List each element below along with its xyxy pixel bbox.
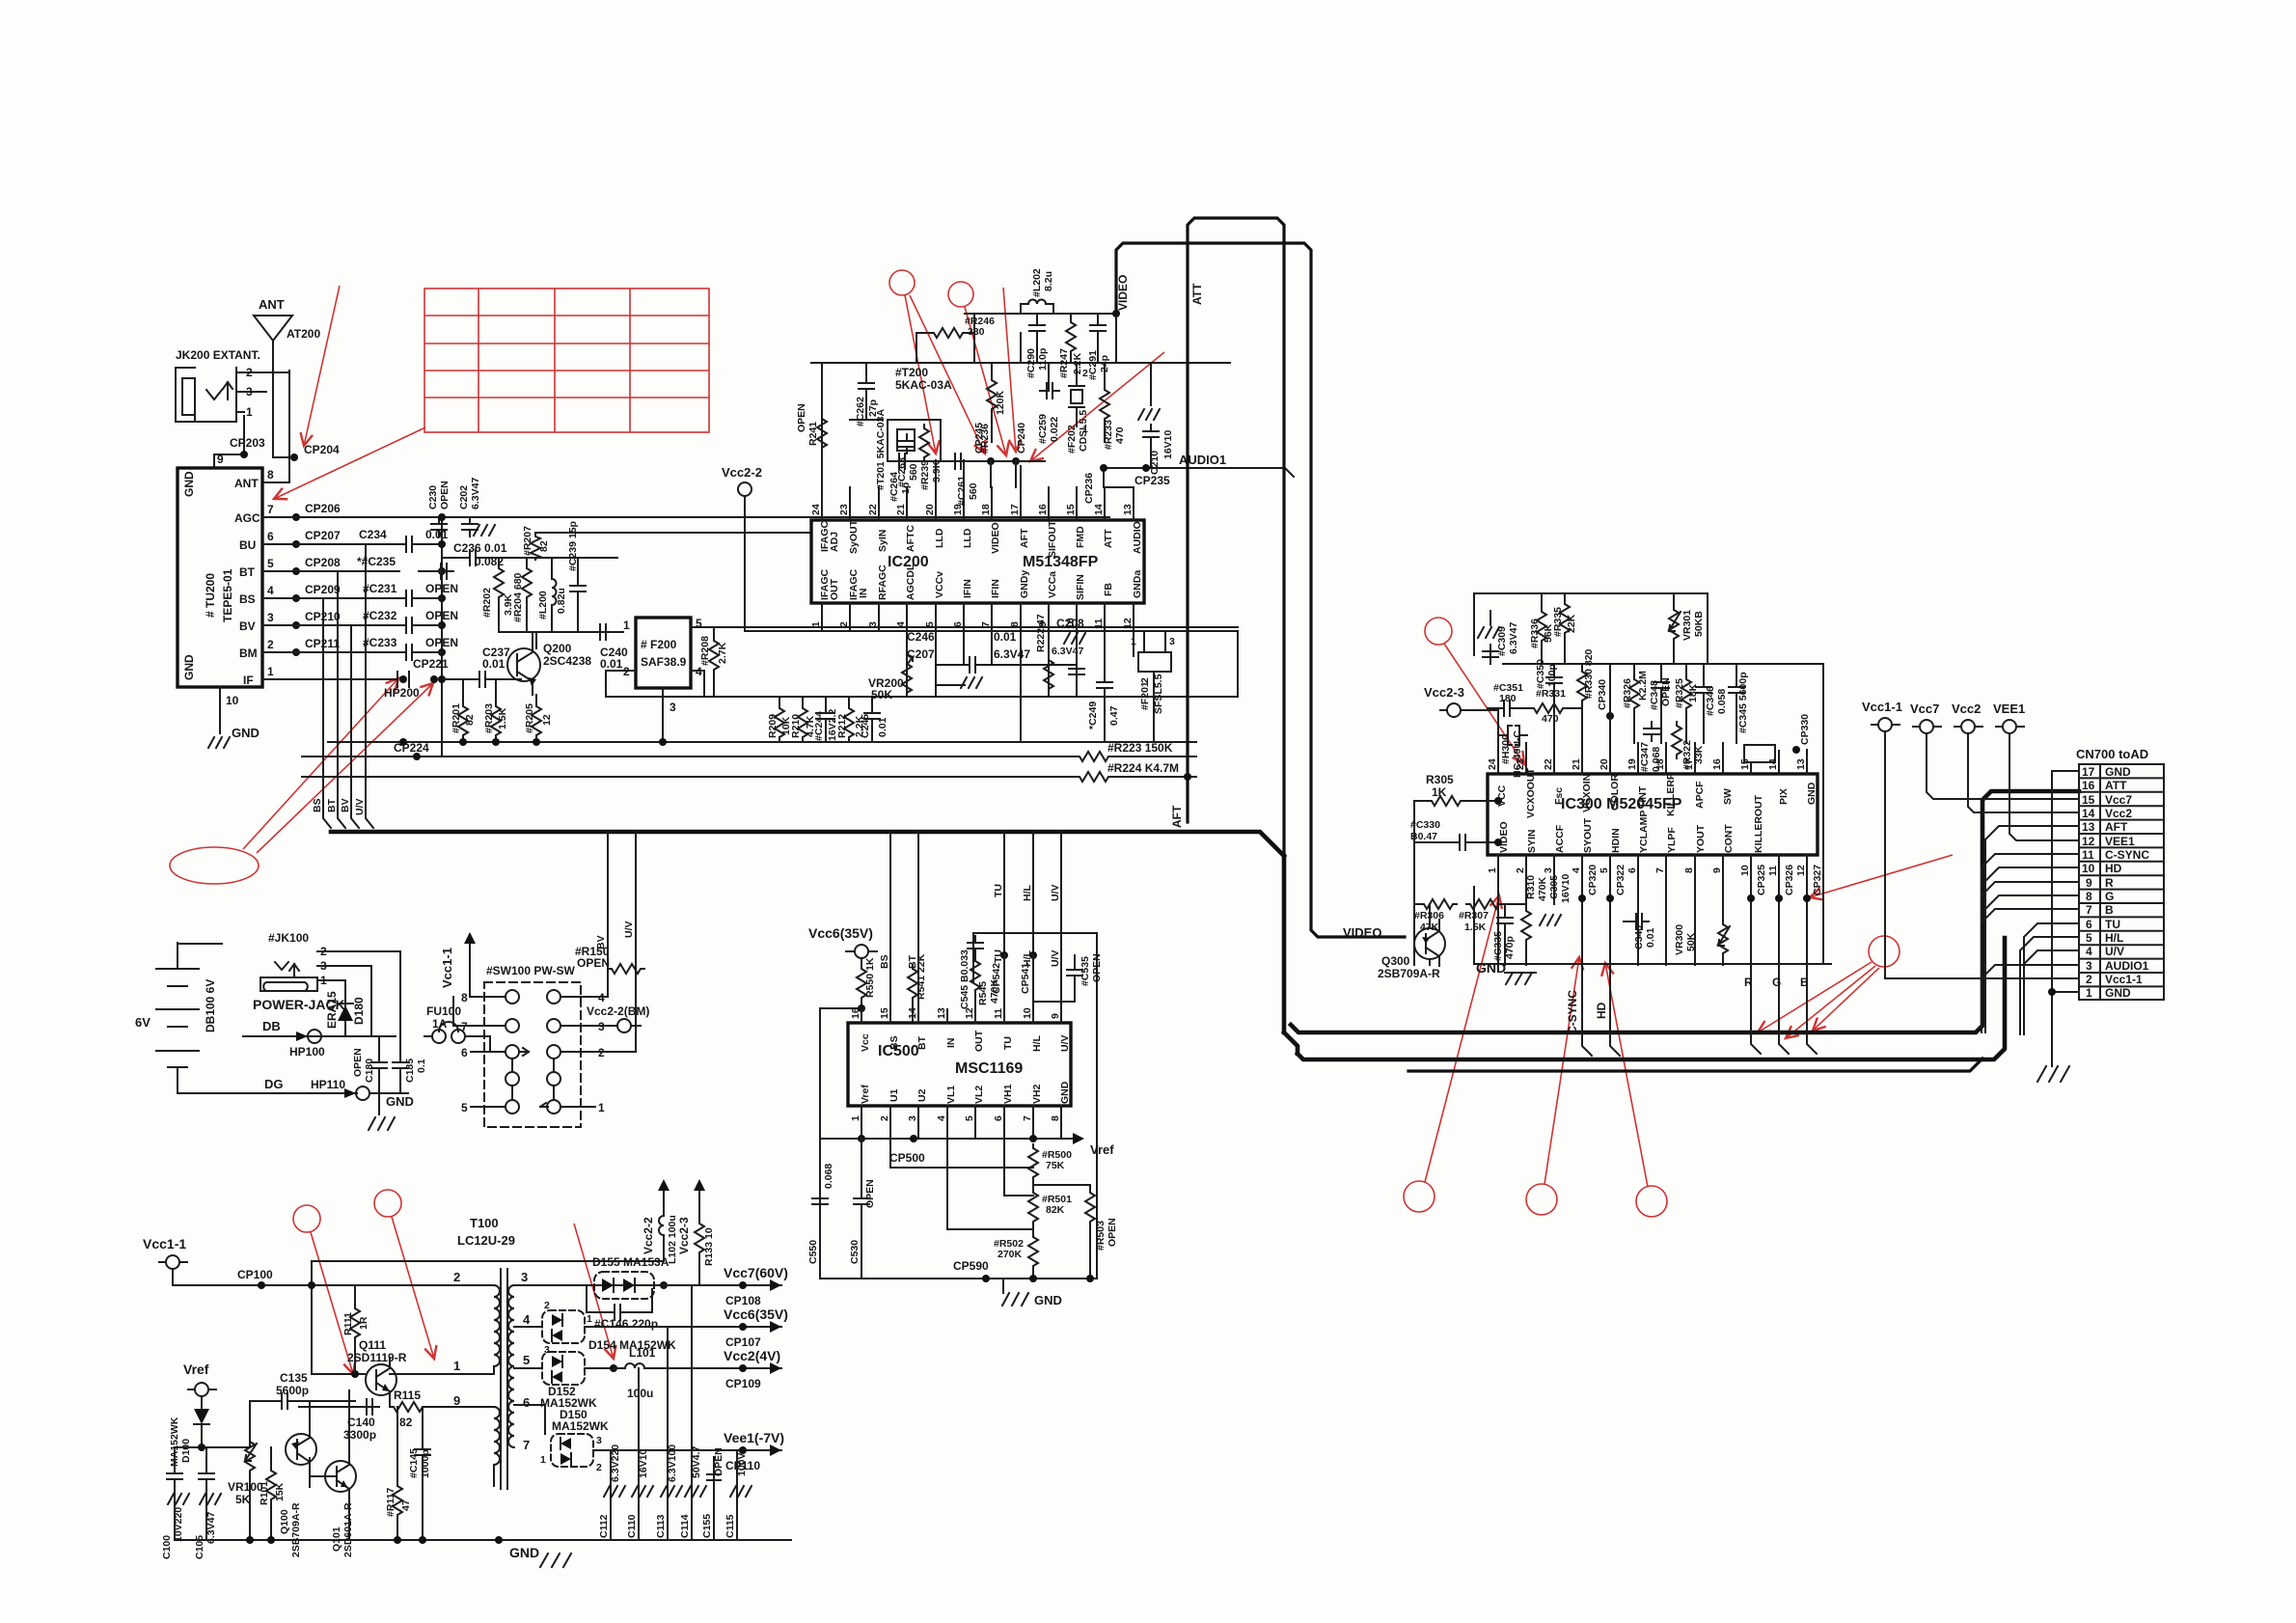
capacitor C290 — [1029, 318, 1045, 338]
svg-text:Fsc: Fsc — [1553, 787, 1565, 805]
svg-text:OUT: OUT — [829, 578, 840, 600]
IC300 top stubs — [1498, 708, 1807, 774]
svg-text:# TU200: # TU200 — [204, 573, 217, 618]
terminal Vcc2-2 arrow — [658, 1179, 670, 1202]
svg-text:C110: C110 — [626, 1514, 638, 1538]
svg-text:470: 470 — [1114, 426, 1126, 444]
svg-text:VR300: VR300 — [1674, 924, 1685, 955]
svg-text:0.01: 0.01 — [425, 528, 449, 541]
crystal F202 — [1069, 363, 1084, 426]
svg-text:4: 4 — [895, 621, 907, 627]
svg-text:3: 3 — [670, 701, 676, 714]
transistor Q100 — [279, 1401, 316, 1557]
svg-text:14: 14 — [907, 1007, 918, 1019]
svg-text:BU: BU — [239, 538, 256, 552]
svg-text:HD: HD — [1595, 1002, 1608, 1019]
svg-text:3: 3 — [246, 385, 253, 399]
wire top video row — [965, 304, 1116, 363]
svg-text:GND: GND — [1059, 1081, 1071, 1104]
svg-text:6.3V47: 6.3V47 — [1052, 646, 1083, 657]
svg-text:GND: GND — [1034, 1293, 1062, 1307]
wire BV row — [289, 624, 442, 626]
svg-text:ANT: ANT — [259, 297, 285, 312]
junction CP541 — [1029, 951, 1037, 959]
wire AUDIO1 — [1104, 468, 1294, 520]
capacitor C261 — [948, 454, 968, 469]
svg-text:SAF38.9: SAF38.9 — [641, 655, 687, 669]
svg-text:#C535: #C535 — [1080, 956, 1091, 986]
svg-text:#F201: #F201 — [1139, 681, 1151, 710]
svg-text:BS: BS — [879, 954, 890, 969]
red circle note E2 — [1526, 1184, 1557, 1215]
jack JK100 — [253, 931, 345, 1012]
resistor R239 — [919, 425, 929, 461]
svg-text:OPEN: OPEN — [425, 609, 458, 622]
svg-text:CN700 toAD: CN700 toAD — [2076, 747, 2148, 761]
svg-text:18: 18 — [1654, 758, 1666, 770]
capacitor C351 — [1488, 707, 1497, 709]
svg-text:SIFOUT: SIFOUT — [1047, 520, 1058, 558]
svg-text:6V: 6V — [135, 1015, 150, 1030]
svg-text:GND: GND — [509, 1545, 539, 1560]
svg-text:GND: GND — [182, 654, 196, 680]
svg-text:#R335: #R335 — [1552, 607, 1564, 637]
wire fan row10 HD — [1985, 867, 2079, 1032]
svg-text:6.3V100: 6.3V100 — [667, 1444, 678, 1482]
svg-text:#L200: #L200 — [537, 591, 549, 619]
svg-text:7: 7 — [1022, 1115, 1033, 1121]
node wire Q200 collector — [499, 632, 623, 648]
svg-text:R: R — [2105, 876, 2114, 890]
red circle note B — [948, 282, 973, 307]
svg-text:0.01: 0.01 — [482, 657, 506, 671]
svg-text:4: 4 — [523, 1312, 531, 1327]
svg-text:CP541: CP541 — [1020, 963, 1031, 994]
svg-text:D180: D180 — [352, 997, 366, 1025]
svg-text:IC300 M52045FP: IC300 M52045FP — [1561, 796, 1682, 812]
svg-text:Vcc2-2: Vcc2-2 — [642, 1217, 655, 1254]
diode D152 — [514, 1352, 614, 1410]
capacitor C230 — [431, 517, 447, 536]
svg-text:R541 22K: R541 22K — [916, 953, 927, 1000]
svg-text:0.1: 0.1 — [416, 1059, 427, 1073]
svg-text:GNDy: GNDy — [1019, 570, 1030, 598]
svg-text:HP100: HP100 — [289, 1045, 325, 1059]
svg-text:GND: GND — [386, 1094, 414, 1109]
svg-text:180: 180 — [1499, 693, 1517, 704]
svg-text:U1: U1 — [888, 1088, 900, 1102]
svg-text:2SD1119-R: 2SD1119-R — [347, 1351, 407, 1364]
svg-text:AFT: AFT — [1170, 805, 1184, 828]
svg-text:10: 10 — [226, 694, 239, 707]
wire fan row7 B — [1982, 909, 2079, 1032]
svg-text:Vcc1-1: Vcc1-1 — [2105, 973, 2143, 986]
svg-text:FU100: FU100 — [426, 1004, 461, 1018]
svg-text:#C290: #C290 — [1025, 348, 1037, 378]
svg-text:5KAC-03A: 5KAC-03A — [895, 378, 952, 392]
capacitor C237 — [473, 672, 492, 687]
resistor R503 — [1033, 1185, 1090, 1279]
svg-text:Q200: Q200 — [543, 642, 572, 655]
svg-text:Vcc2-3: Vcc2-3 — [1424, 685, 1464, 700]
resistor R550 — [861, 958, 862, 965]
terminal Vcc2-3 arrow — [694, 1179, 705, 1202]
svg-text:TU: TU — [1002, 1036, 1014, 1050]
svg-text:7: 7 — [980, 621, 992, 627]
wire IC500 vcc wrap — [820, 1008, 861, 1279]
svg-text:D155 MA153A: D155 MA153A — [592, 1255, 670, 1269]
svg-text:13: 13 — [1795, 758, 1807, 770]
red circle note F2 power — [374, 1190, 401, 1217]
svg-text:0.82u: 0.82u — [556, 588, 567, 614]
svg-text:#H300: #H300 — [1500, 734, 1512, 764]
capacitor C210 — [1150, 363, 1152, 405]
junction CP208 — [292, 567, 300, 575]
wire fan row3 AUDIO1 — [1982, 965, 2079, 1032]
svg-text:15: 15 — [1739, 758, 1751, 770]
svg-text:CP327: CP327 — [1812, 865, 1823, 895]
wire BV UV drop — [608, 832, 636, 1052]
wire BS row — [289, 597, 442, 599]
svg-text:CP206: CP206 — [305, 502, 341, 515]
wire jack pins — [317, 951, 400, 1036]
svg-text:BS: BS — [312, 798, 323, 812]
tuner TU200 — [178, 468, 262, 687]
svg-text:#C348: #C348 — [1649, 680, 1660, 710]
battery DB100 — [135, 944, 222, 1093]
svg-text:R305: R305 — [1426, 773, 1454, 786]
svg-text:AT200: AT200 — [287, 327, 320, 341]
svg-text:TEPE5-01: TEPE5-01 — [221, 568, 234, 622]
svg-text:AUDIO: AUDIO — [1132, 521, 1143, 554]
svg-text:3: 3 — [596, 1435, 602, 1446]
wire IF row — [262, 678, 473, 680]
transformer T100 — [453, 1216, 531, 1489]
svg-text:R210: R210 — [790, 714, 802, 738]
svg-text:AFT: AFT — [2105, 820, 2128, 834]
potentiometer VR100 — [245, 1438, 255, 1474]
svg-text:C115: C115 — [724, 1514, 736, 1538]
svg-text:4: 4 — [267, 584, 274, 597]
svg-text:9: 9 — [1050, 1013, 1061, 1019]
svg-text:VL2: VL2 — [973, 1086, 985, 1104]
resistor R233 — [1100, 386, 1109, 423]
capacitor C202 — [462, 517, 478, 536]
junction HP200 — [399, 675, 407, 683]
resistor R545 — [970, 957, 980, 994]
svg-text:*C249: *C249 — [1087, 701, 1099, 729]
transistor Q101 — [310, 1390, 356, 1557]
svg-text:GNDa: GNDa — [1132, 570, 1143, 598]
svg-text:560: 560 — [908, 463, 919, 481]
svg-text:PIX: PIX — [1778, 788, 1790, 805]
junction CP211 — [292, 648, 300, 656]
thick bus H2 — [1298, 938, 2005, 1059]
switch SW100 — [461, 964, 605, 1127]
svg-text:R133 10: R133 10 — [703, 1227, 715, 1266]
svg-text:16V10: 16V10 — [1560, 873, 1572, 903]
svg-text:2: 2 — [2086, 973, 2092, 986]
svg-text:C246: C246 — [907, 630, 935, 644]
svg-text:2SD601A-R: 2SD601A-R — [342, 1502, 354, 1557]
svg-text:2SB709A-R: 2SB709A-R — [1378, 967, 1440, 980]
svg-text:0.01: 0.01 — [600, 657, 623, 671]
red arrow ellipse to CP221 — [257, 683, 433, 853]
jack JK200 — [176, 348, 289, 422]
svg-text:IF: IF — [243, 674, 254, 687]
resistor R335 — [1560, 600, 1570, 637]
svg-text:DB: DB — [262, 1019, 281, 1033]
svg-text:13: 13 — [2082, 820, 2095, 834]
svg-text:11: 11 — [993, 1008, 1004, 1019]
svg-text:0.47: 0.47 — [1108, 705, 1120, 726]
thick ATT top loop — [1188, 218, 1284, 1021]
svg-text:#R207: #R207 — [522, 526, 533, 556]
svg-text:B0.47: B0.47 — [1410, 831, 1437, 842]
potentiometer VR300 — [1718, 921, 1728, 957]
svg-text:GND: GND — [2105, 765, 2131, 779]
svg-text:CP107: CP107 — [725, 1335, 761, 1349]
svg-text:100p: 100p — [1546, 664, 1558, 687]
capacitor C145 — [415, 1443, 430, 1462]
svg-text:R241: R241 — [807, 422, 819, 446]
svg-text:R222 47: R222 47 — [1035, 614, 1047, 652]
svg-text:4: 4 — [2086, 945, 2092, 958]
svg-text:U/V: U/V — [2105, 945, 2124, 958]
svg-text:1: 1 — [587, 1313, 592, 1325]
svg-text:CP109: CP109 — [725, 1377, 761, 1390]
node vertical — [441, 517, 443, 756]
svg-text:8: 8 — [461, 991, 468, 1004]
svg-text:Vcc6(35V): Vcc6(35V) — [808, 925, 873, 941]
node Vref wire — [175, 1438, 250, 1467]
svg-text:Vcc7: Vcc7 — [2105, 793, 2132, 807]
junction CP325 CP326 CP327 — [1747, 894, 1755, 902]
capacitor C185 — [393, 1056, 408, 1075]
svg-text:CP326: CP326 — [1784, 865, 1795, 895]
svg-text:Vcc1-1: Vcc1-1 — [143, 1236, 186, 1252]
svg-text:VH1: VH1 — [1002, 1084, 1014, 1104]
svg-text:7: 7 — [523, 1438, 530, 1452]
svg-text:OPEN: OPEN — [425, 636, 458, 649]
svg-text:# F200: # F200 — [641, 638, 677, 651]
wire Vref row — [820, 1138, 1061, 1140]
svg-text:TINT: TINT — [1637, 785, 1649, 809]
svg-text:BT: BT — [916, 1035, 928, 1050]
svg-text:8: 8 — [2086, 890, 2092, 903]
svg-text:ATT: ATT — [1190, 283, 1204, 305]
svg-text:VIDEO: VIDEO — [1343, 925, 1381, 940]
svg-text:R550 1K: R550 1K — [864, 957, 876, 998]
svg-text:100V1: 100V1 — [736, 1446, 748, 1476]
svg-text:CP108: CP108 — [725, 1294, 761, 1307]
upper box C545 cluster — [973, 933, 1097, 1279]
rail R224 — [302, 776, 1196, 778]
svg-text:15: 15 — [2082, 793, 2095, 807]
svg-text:C210: C210 — [1149, 451, 1161, 475]
svg-text:AFTC: AFTC — [905, 525, 916, 552]
wire antenna to ANT pin — [262, 371, 289, 482]
svg-text:C-SYNC: C-SYNC — [2105, 848, 2149, 862]
IC500 top stubs — [861, 955, 1061, 1023]
red arrows note D to RGB — [1758, 962, 1872, 1032]
capacitor C348 — [1654, 675, 1669, 695]
capacitor C146 — [587, 1285, 652, 1312]
svg-text:ERA15: ERA15 — [325, 991, 339, 1029]
svg-text:MSC1169: MSC1169 — [955, 1060, 1023, 1077]
svg-text:GND: GND — [182, 471, 196, 497]
resistor R201 — [458, 702, 468, 739]
svg-text:9: 9 — [453, 1393, 460, 1408]
svg-text:APCF: APCF — [1694, 781, 1706, 809]
svg-text:1.5K: 1.5K — [497, 707, 508, 729]
resistor R111 — [350, 1305, 360, 1341]
capacitor C240 — [593, 624, 613, 640]
svg-text:8: 8 — [1683, 867, 1695, 873]
svg-text:TU: TU — [2105, 918, 2120, 931]
svg-text:U2: U2 — [916, 1088, 928, 1102]
svg-text:L101: L101 — [629, 1346, 656, 1360]
svg-text:IFIN: IFIN — [962, 579, 973, 598]
svg-text:OPEN: OPEN — [864, 1179, 876, 1208]
svg-text:1: 1 — [1131, 636, 1136, 647]
resistor R541 — [908, 965, 917, 1002]
rail R223 — [302, 756, 1196, 757]
svg-text:5K: 5K — [235, 1493, 251, 1506]
svg-text:#R201: #R201 — [451, 703, 462, 733]
svg-text:ACCF: ACCF — [1554, 824, 1566, 853]
svg-text:50V4.7: 50V4.7 — [691, 1446, 702, 1478]
junction CP206 — [292, 513, 300, 521]
resistor R305 — [1414, 800, 1498, 802]
svg-text:6.3V47: 6.3V47 — [205, 1512, 217, 1544]
svg-text:CP240: CP240 — [1016, 423, 1027, 454]
svg-text:1A: 1A — [432, 1017, 448, 1031]
IC200 bottom pin stubs and numbers — [822, 603, 1134, 742]
capacitor C207 — [936, 684, 965, 686]
svg-text:R310: R310 — [1525, 875, 1537, 899]
svg-text:6.3V47: 6.3V47 — [1508, 622, 1519, 654]
capacitor C550 — [812, 1192, 828, 1211]
svg-text:G: G — [1772, 976, 1781, 989]
svg-text:22: 22 — [1543, 758, 1554, 770]
svg-text:CP320: CP320 — [1587, 865, 1599, 895]
junction CP207 — [292, 540, 300, 548]
resistor R330 — [1577, 668, 1587, 704]
svg-text:5: 5 — [924, 621, 936, 627]
svg-text:14: 14 — [1767, 758, 1779, 770]
svg-text:OUT: OUT — [973, 1030, 985, 1052]
resistor R500 — [1028, 1144, 1038, 1181]
svg-text:2: 2 — [1082, 368, 1088, 379]
wire BU row — [289, 543, 442, 545]
IC200 top pin stubs and numbers — [822, 460, 1134, 520]
capacitor C340 — [1629, 914, 1649, 929]
svg-text:Vcc7: Vcc7 — [1910, 701, 1939, 716]
thick bus H1 — [1291, 791, 2079, 1032]
svg-text:#T200: #T200 — [895, 366, 928, 379]
svg-text:22K: 22K — [1566, 614, 1577, 633]
svg-text:15: 15 — [879, 1007, 890, 1019]
svg-text:IFIN: IFIN — [990, 579, 1001, 598]
junction CP330 — [1792, 746, 1800, 754]
red arrow note C to pin23 — [1444, 644, 1524, 764]
mid thick bus — [331, 832, 1284, 856]
svg-text:3: 3 — [907, 1115, 918, 1121]
svg-text:#T201 5KAC-03A: #T201 5KAC-03A — [875, 409, 887, 490]
resistor R331 — [1530, 703, 1567, 713]
svg-text:9: 9 — [1711, 867, 1723, 873]
resistor R306 R307 — [1414, 903, 1420, 905]
svg-text:C185: C185 — [404, 1059, 416, 1083]
terminal HP100 — [308, 1030, 321, 1043]
red arrows from note A — [905, 295, 936, 454]
wire fan row8 G — [1985, 895, 2079, 1032]
svg-text:OPEN: OPEN — [425, 582, 458, 595]
IC300 M52045FP — [1488, 774, 1818, 855]
svg-text:B: B — [2105, 903, 2114, 917]
svg-text:#R205: #R205 — [524, 703, 535, 733]
inductor L101 — [610, 1364, 617, 1372]
IC500 MSC1169 — [848, 1023, 1071, 1106]
red arrow ellipse to HP200 — [243, 678, 398, 849]
svg-text:U/V: U/V — [1059, 1034, 1071, 1052]
wire CN700 ground bus — [2052, 771, 2079, 1066]
capacitor C262 — [850, 363, 883, 420]
svg-text:C100: C100 — [161, 1535, 173, 1559]
svg-text:1R: 1R — [358, 1316, 369, 1330]
svg-text:110p: 110p — [1037, 348, 1049, 371]
svg-text:Vcc2: Vcc2 — [2105, 807, 2132, 820]
red circle note D right — [1869, 936, 1900, 967]
red annotation arrow grid to ANT pin — [274, 427, 425, 499]
svg-text:CP204: CP204 — [304, 443, 340, 456]
resistor R207 — [531, 533, 540, 560]
svg-text:BV: BV — [340, 798, 351, 812]
capacitor C264 — [892, 454, 912, 469]
capacitor C180 — [371, 1056, 387, 1075]
svg-text:SyOUT: SyOUT — [848, 519, 860, 554]
wire BS BT drop — [890, 832, 918, 1002]
pin14 box — [1744, 745, 1775, 762]
red arrow to L101 junction — [574, 1224, 614, 1359]
svg-text:Q111: Q111 — [359, 1338, 386, 1352]
transistor Q300 — [1378, 920, 1445, 980]
svg-text:C305: C305 — [1548, 875, 1560, 899]
svg-text:Vref: Vref — [860, 1085, 871, 1104]
svg-text:Vcc2-2(BM): Vcc2-2(BM) — [587, 1004, 649, 1018]
svg-text:Vcc2(4V): Vcc2(4V) — [724, 1348, 780, 1363]
svg-text:VL1: VL1 — [945, 1086, 957, 1104]
svg-text:470: 470 — [1542, 713, 1559, 725]
svg-text:VCCv: VCCv — [934, 571, 945, 598]
svg-text:#C233: #C233 — [363, 636, 397, 649]
svg-text:K2.2M: K2.2M — [1637, 671, 1649, 701]
svg-text:VR301: VR301 — [1681, 610, 1693, 641]
svg-text:B: B — [1800, 976, 1809, 989]
svg-text:#C262: #C262 — [855, 397, 866, 426]
svg-text:H/L: H/L — [2105, 931, 2123, 945]
capacitor C345 — [1729, 680, 1744, 700]
svg-text:C114: C114 — [679, 1514, 691, 1538]
resistors R209 R210 C244 R212 C245 — [779, 697, 872, 742]
svg-text:AGCDL: AGCDL — [905, 564, 916, 600]
capacitor C234 — [399, 536, 419, 552]
svg-text:#C291: #C291 — [1087, 350, 1099, 380]
svg-text:10: 10 — [1022, 1007, 1033, 1019]
svg-text:H/L: H/L — [1022, 885, 1033, 902]
svg-text:560: 560 — [968, 482, 979, 500]
